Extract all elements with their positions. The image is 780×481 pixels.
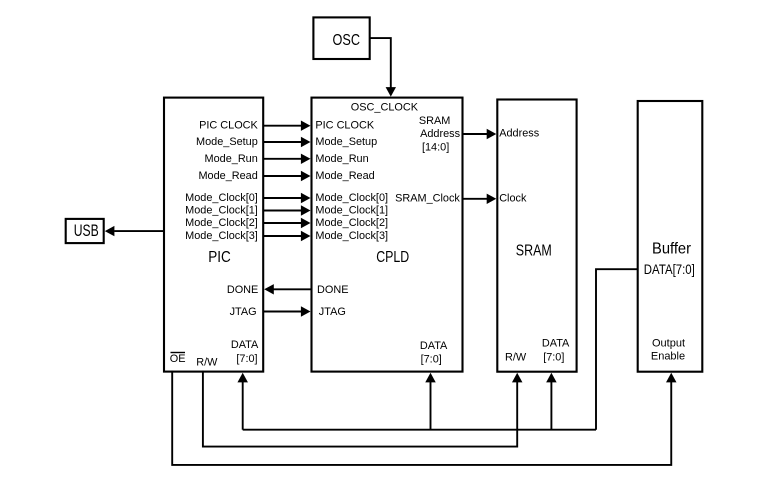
svg-text:DATA[7:0]: DATA[7:0] [644, 262, 695, 277]
svg-text:Mode_Clock[3]: Mode_Clock[3] [185, 230, 258, 242]
wire DATA stub into SRAM [546, 373, 557, 430]
svg-text:Mode_Clock[1]: Mode_Clock[1] [315, 205, 388, 217]
svg-text:Mode_Clock[3]: Mode_Clock[3] [315, 230, 388, 242]
wire DATA riser to Buffer [596, 269, 638, 430]
svg-text:Clock: Clock [499, 193, 527, 205]
wire OSC_CLOCK: OSC to CPLD top [370, 38, 396, 97]
wire Mode_Clock[2]: PIC to CPLD [263, 218, 310, 228]
pin label DATA [7:0] (PIC) [231, 339, 259, 365]
wire USB: PIC to USB [105, 226, 164, 236]
svg-text:Mode_Clock[0]: Mode_Clock[0] [315, 192, 388, 204]
wire Mode_Read: PIC to CPLD [263, 171, 310, 181]
wire DATA bus horizontal [243, 429, 596, 431]
svg-text:Mode_Read: Mode_Read [315, 170, 374, 182]
block USB [66, 219, 104, 243]
svg-text:SRAM: SRAM [419, 115, 450, 127]
svg-text:USB: USB [74, 222, 99, 240]
wire Mode_Run: PIC to CPLD [263, 154, 310, 164]
block CPLD [312, 98, 463, 372]
wire DATA stub into CPLD [425, 373, 436, 430]
pin label DATA [7:0] (CPLD) [420, 340, 448, 365]
svg-text:SRAM_Clock: SRAM_Clock [395, 192, 460, 204]
svg-text:Address: Address [420, 128, 461, 140]
svg-text:Mode_Clock[0]: Mode_Clock[0] [185, 192, 258, 204]
svg-text:PIC: PIC [208, 249, 231, 266]
svg-text:Mode_Clock[1]: Mode_Clock[1] [185, 205, 258, 217]
block SRAM [497, 100, 576, 372]
block PIC [164, 98, 263, 372]
svg-text:Enable: Enable [651, 351, 685, 363]
svg-text:OSC_CLOCK: OSC_CLOCK [351, 101, 419, 113]
pin label Output Enable (Buffer) [651, 338, 685, 363]
svg-text:CPLD: CPLD [376, 249, 409, 266]
block Buffer [638, 101, 703, 372]
svg-text:Mode_Run: Mode_Run [205, 153, 258, 165]
wire SRAM Address: CPLD to SRAM [463, 129, 497, 139]
wire PIC CLOCK: PIC to CPLD [263, 121, 310, 131]
pin label OE-bar (PIC) [170, 353, 186, 365]
svg-text:Buffer: Buffer [652, 241, 692, 258]
svg-text:DATA: DATA [420, 340, 448, 352]
svg-text:R/W: R/W [196, 357, 218, 369]
wire JTAG: PIC to CPLD [263, 306, 310, 316]
svg-text:R/W: R/W [505, 352, 527, 364]
svg-text:JTAG: JTAG [319, 306, 346, 318]
svg-text:[7:0]: [7:0] [543, 351, 564, 363]
svg-text:Mode_Clock[2]: Mode_Clock[2] [315, 217, 388, 229]
svg-text:Address: Address [499, 128, 540, 140]
wire DONE: CPLD to PIC [264, 284, 311, 294]
block OSC [313, 17, 369, 59]
wire OE bus: PIC to Buffer [172, 371, 676, 465]
svg-text:DONE: DONE [227, 284, 258, 296]
svg-text:Mode_Setup: Mode_Setup [196, 136, 258, 148]
svg-text:[7:0]: [7:0] [236, 353, 257, 365]
pin label DATA [7:0] (SRAM) [542, 337, 570, 363]
svg-text:DATA: DATA [542, 337, 570, 349]
wire Mode_Setup: PIC to CPLD [263, 137, 310, 147]
svg-text:Mode_Clock[2]: Mode_Clock[2] [185, 217, 258, 229]
wire SRAM_Clock: CPLD to SRAM [463, 194, 497, 204]
wire DATA stub into PIC [237, 373, 248, 430]
svg-text:OE: OE [170, 353, 186, 365]
wire Mode_Clock[1]: PIC to CPLD [263, 205, 310, 215]
svg-text:Mode_Run: Mode_Run [315, 153, 368, 165]
wire Mode_Clock[0]: PIC to CPLD [263, 193, 310, 203]
wire R/W bus: PIC to SRAM [203, 371, 523, 447]
svg-text:[14:0]: [14:0] [422, 142, 449, 154]
svg-text:SRAM: SRAM [516, 243, 552, 260]
svg-text:Mode_Setup: Mode_Setup [315, 136, 377, 148]
pin label SRAM Address [14:0] (CPLD) [419, 115, 461, 154]
svg-text:Mode_Read: Mode_Read [198, 170, 257, 182]
svg-text:DONE: DONE [317, 284, 348, 296]
wire Mode_Clock[3]: PIC to CPLD [263, 231, 310, 241]
svg-text:PIC CLOCK: PIC CLOCK [315, 120, 374, 132]
svg-text:PIC CLOCK: PIC CLOCK [199, 120, 258, 132]
svg-text:DATA: DATA [231, 339, 259, 351]
svg-text:[7:0]: [7:0] [421, 354, 442, 366]
svg-text:OSC: OSC [333, 32, 361, 49]
svg-text:Output: Output [652, 338, 685, 350]
svg-text:JTAG: JTAG [230, 306, 257, 318]
